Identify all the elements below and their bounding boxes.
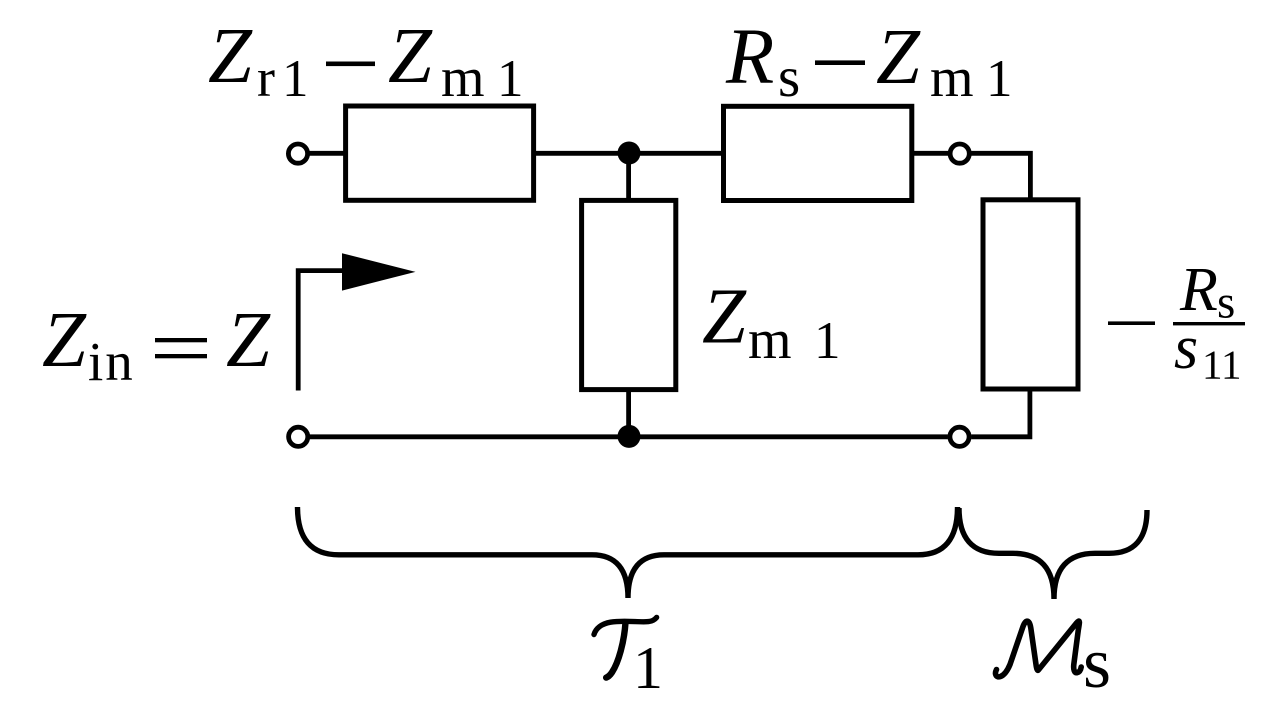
resistor box Zr1-Zm1 (series impedance): [346, 106, 534, 200]
terminal: input top-left open circle: [288, 144, 307, 163]
svg-text:Z: Z: [388, 13, 433, 100]
brace: underbrace for Ms network: [959, 508, 1147, 599]
wire: top-left terminal to box Zr1-Zm1: [310, 151, 347, 156]
wire: bottom rail from bottom-right terminal to bottom-left terminal: [310, 434, 948, 439]
svg-text:1: 1: [814, 312, 841, 370]
resistor box Rs-Zm1 (series impedance): [724, 106, 912, 200]
svg-text:Z: Z: [208, 13, 253, 100]
svg-text:m: m: [441, 47, 485, 109]
label T1 (script T): [594, 617, 663, 701]
impedance box Zm1 (shunt): [582, 200, 676, 389]
wire: top-right terminal to right branch corner: [971, 153, 1030, 200]
svg-text:1: 1: [282, 50, 309, 108]
svg-text:m: m: [748, 309, 792, 371]
svg-text:s: s: [1174, 314, 1198, 382]
terminal: top-right open circle: [950, 144, 969, 163]
wire: box Rs-Zm1 to output terminal: [912, 151, 948, 156]
value label Zm1: [702, 273, 841, 371]
svg-text:s: s: [1083, 623, 1111, 703]
svg-text:r: r: [257, 48, 275, 108]
value label -Rs/s11: [1108, 256, 1245, 388]
wire: node A down to shunt box Zm1: [626, 153, 631, 200]
node B: bottom junction dot: [618, 425, 641, 448]
svg-text:Z: Z: [42, 297, 87, 384]
svg-text:s: s: [1217, 277, 1235, 329]
value label Rs - Zm1: [725, 14, 1013, 109]
wire: box Zm1 down to node B: [626, 390, 631, 437]
svg-text:s: s: [778, 46, 800, 109]
svg-text:1: 1: [497, 50, 524, 108]
svg-text:R: R: [725, 14, 774, 101]
terminal: bottom-right open circle: [950, 427, 969, 446]
svg-text:Z: Z: [876, 14, 921, 101]
label Zin = Z: [42, 297, 271, 392]
brace: underbrace for T1 network: [298, 507, 958, 598]
value label Zr1 - Zm1: [208, 13, 524, 109]
svg-text:in: in: [88, 331, 135, 392]
terminal: bottom-left open circle: [289, 427, 308, 446]
node A: top junction dot: [618, 142, 641, 165]
svg-text:Z: Z: [702, 273, 747, 360]
arrow: input impedance looking-in arrow: [298, 253, 415, 390]
wire: node A to box Rs-Zm1: [629, 151, 724, 156]
svg-text:1: 1: [986, 50, 1013, 108]
wire: -Rs/s11 box bottom to bottom-right corner: [971, 389, 1030, 437]
wire: box Zr1-Zm1 to node A: [534, 151, 629, 156]
svg-text:1: 1: [633, 635, 663, 701]
svg-text:11: 11: [1202, 342, 1241, 388]
svg-text:Z: Z: [226, 297, 271, 384]
label Ms (script M): [995, 621, 1111, 703]
impedance box -Rs/s11 (shunt): [983, 200, 1078, 389]
svg-text:m: m: [930, 47, 974, 109]
